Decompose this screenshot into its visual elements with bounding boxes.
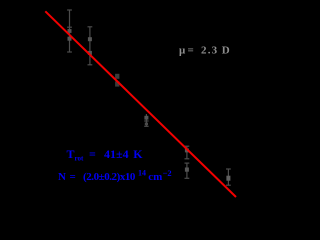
data point 4 markers bbox=[144, 116, 148, 120]
data point 5 lower marker bbox=[185, 168, 189, 172]
svg-text:N=(2.0±0.2)x1014cm−2: N=(2.0±0.2)x1014cm−2 bbox=[58, 168, 172, 183]
data point 5 upper error bar (x=187) bbox=[185, 146, 190, 159]
data point 3 markers (x=117.3, dark pair) bbox=[115, 74, 119, 79]
data point 2 error bar (x=90) bbox=[88, 27, 93, 65]
data point 6 error bar (x=228.4) bbox=[226, 169, 231, 185]
data point 5 upper marker bbox=[185, 148, 189, 152]
data point 5 lower error bar bbox=[185, 163, 190, 178]
data point 1 error bar (x=69.5) bbox=[67, 10, 72, 52]
data point 6 marker bbox=[226, 176, 230, 181]
data point 2 markers bbox=[88, 37, 92, 41]
data point 1 markers bbox=[68, 29, 72, 33]
svg-text:μ=2.3D: μ=2.3D bbox=[179, 45, 230, 57]
data point 4 error bar (x=146.4) bbox=[144, 114, 148, 126]
svg-text:Trot=41±4K: Trot=41±4K bbox=[67, 147, 144, 163]
fit line (red) bbox=[45, 11, 236, 197]
